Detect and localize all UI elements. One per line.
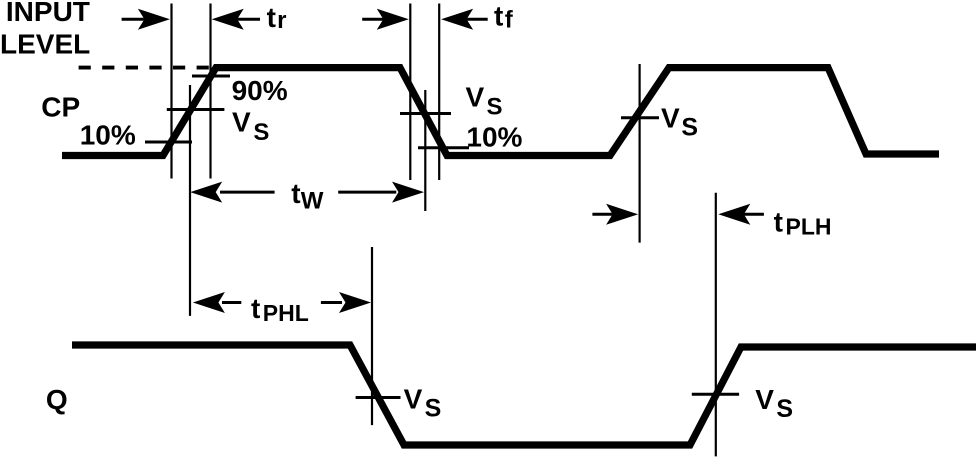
arrow tW right (points right at Vs fall line) [338, 182, 424, 203]
svg-text:V: V [466, 82, 485, 113]
arrow tW left (points left at line B) [190, 182, 274, 203]
svg-text:LEVEL: LEVEL [0, 29, 90, 60]
tick Vs fall 1 [400, 112, 451, 115]
tick 90% rise 1 [192, 75, 230, 78]
marker line G (Vs of Q rise) [715, 193, 717, 457]
svg-text:PHL: PHL [263, 300, 309, 326]
tick Vs Q rise [692, 393, 739, 396]
svg-text:t: t [494, 1, 503, 32]
tick Vs rise 2 [621, 116, 659, 119]
arrow tPHL right (points right at line H) [321, 292, 371, 313]
marker line Vs of fall 1 [424, 90, 426, 211]
svg-text:10%: 10% [80, 120, 136, 151]
marker line D (90% of fall 1) [409, 4, 411, 181]
dashed input-level reference line [79, 66, 216, 70]
Q waveform [72, 345, 976, 445]
svg-text:t: t [291, 178, 300, 209]
tick Vs rise 1 [167, 108, 225, 111]
svg-text:V: V [755, 384, 774, 415]
arrow tPHL left (points left at line B) [193, 292, 241, 313]
svg-text:S: S [776, 395, 793, 423]
svg-text:Q: Q [46, 384, 68, 415]
svg-text:W: W [301, 188, 324, 215]
svg-text:V: V [404, 384, 423, 415]
svg-text:INPUT: INPUT [6, 0, 90, 27]
svg-text:PLH: PLH [786, 213, 832, 239]
marker line C (90% of rise 1) [209, 4, 211, 179]
arrow tf right-side (points left at line E) [441, 9, 488, 30]
arrow tPLH right-side (points left at line G) [718, 204, 764, 225]
svg-text:90%: 90% [232, 75, 288, 106]
marker line A (10% of rise 1) [170, 4, 172, 179]
arrow tr right-side (points left at line C) [212, 9, 260, 30]
svg-text:f: f [505, 6, 514, 33]
svg-text:S: S [425, 395, 442, 423]
tick 10% fall 1 [418, 146, 469, 149]
svg-text:r: r [277, 7, 286, 34]
svg-text:t: t [251, 293, 260, 324]
svg-text:V: V [232, 107, 251, 138]
arrow tr left-side (points right at line A) [122, 9, 170, 30]
marker line B (Vs of rise 1) [189, 85, 191, 316]
marker line F (Vs of rise 2) [638, 64, 640, 243]
svg-text:S: S [253, 119, 269, 146]
marker line E (10% of fall 1) [438, 4, 440, 181]
arrow tPLH left-side (points right at line F) [592, 204, 638, 225]
svg-text:10%: 10% [466, 121, 522, 152]
svg-text:CP: CP [41, 92, 80, 123]
svg-text:t: t [267, 2, 276, 33]
svg-text:S: S [487, 93, 503, 120]
arrow tf left-side (points right at line D) [362, 9, 409, 30]
svg-text:t: t [774, 207, 783, 238]
CP waveform [62, 68, 939, 156]
tick 10% rise 1 [145, 141, 192, 144]
svg-text:S: S [681, 114, 698, 142]
tick Vs Q fall [356, 396, 401, 399]
marker line H (Vs of Q fall) [371, 247, 373, 425]
svg-text:V: V [661, 102, 680, 133]
